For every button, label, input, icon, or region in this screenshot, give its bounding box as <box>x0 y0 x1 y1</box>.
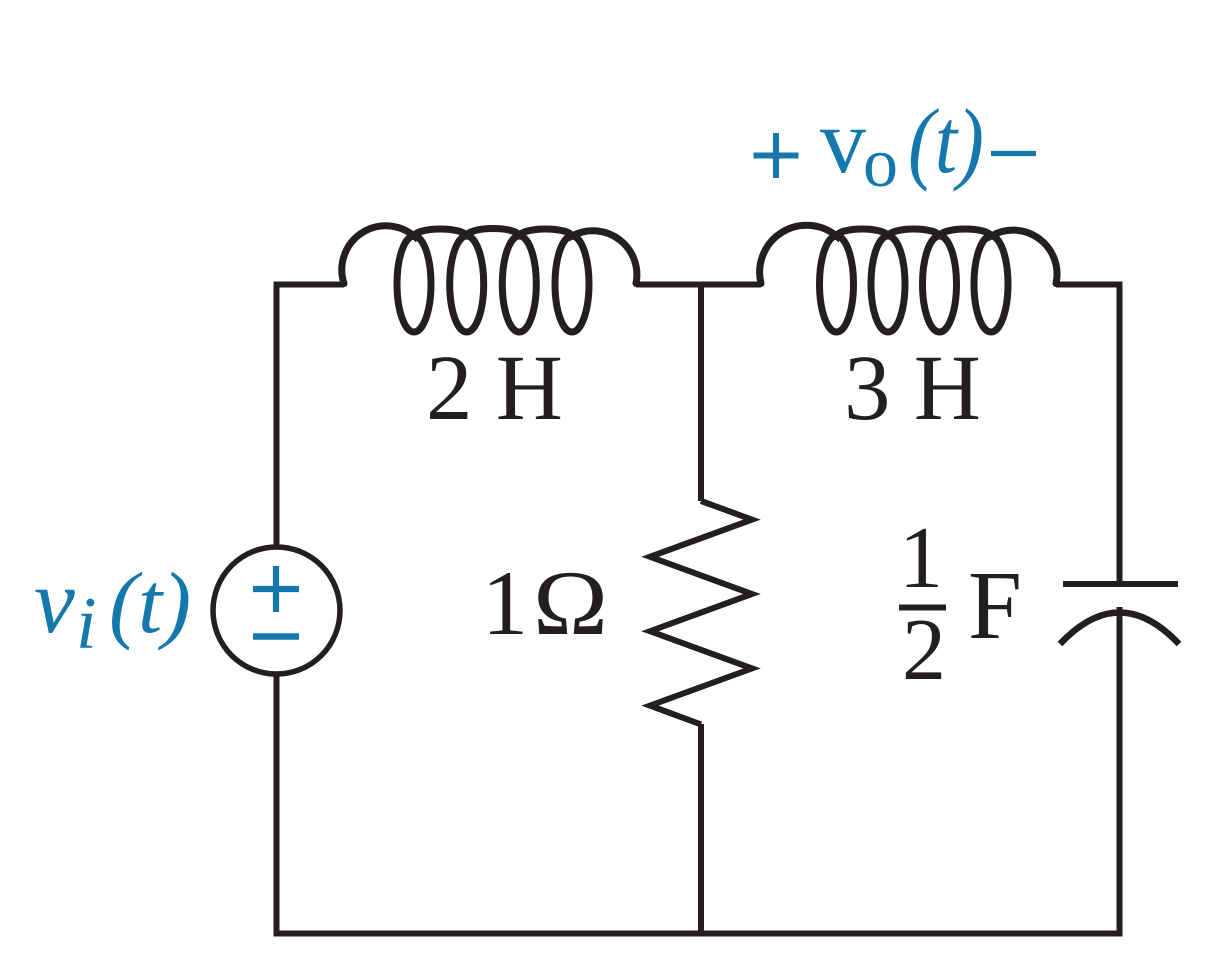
wire: top middle horizontal segment <box>636 282 761 288</box>
wire: bottom rail <box>274 931 1123 937</box>
capacitor C1 bottom curved plate <box>1060 613 1179 645</box>
svg-text:3 H: 3 H <box>844 337 981 440</box>
svg-text:2: 2 <box>902 602 946 699</box>
wire: left vertical from source down to bottom rail <box>274 674 280 937</box>
voltage source V1 circle <box>213 547 340 674</box>
svg-text:v: v <box>34 550 75 652</box>
label: 1/2 F capacitance value <box>899 510 1022 699</box>
svg-text:2 H: 2 H <box>426 337 563 440</box>
wire: right vertical from top rail to capacitor top plate <box>1117 282 1123 584</box>
plus sign inside source <box>253 566 299 612</box>
svg-text:Ω: Ω <box>533 552 608 654</box>
svg-text:F: F <box>968 552 1022 659</box>
wire: capacitor bottom to bottom rail <box>1117 607 1123 937</box>
wire: top-right horizontal segment <box>1056 282 1123 288</box>
capacitor C1 top plate <box>1063 581 1178 587</box>
label: vo(t) output voltage (blue) <box>820 90 984 202</box>
inductor L1 coil (2 H) <box>342 226 637 332</box>
resistor R1 zigzag (1 Ohm) <box>650 501 752 724</box>
svg-text:(t): (t) <box>908 90 984 192</box>
plus sign of vo label <box>754 133 799 178</box>
wire: left vertical from top rail down to source <box>274 282 280 547</box>
svg-text:i: i <box>76 583 97 665</box>
label: vi(t) source voltage (blue) <box>34 550 191 665</box>
svg-text:v: v <box>820 90 866 192</box>
svg-text:(t): (t) <box>109 554 191 651</box>
node: middle junction vertical wire down to resistor <box>698 282 704 501</box>
minus sign inside source <box>253 633 299 640</box>
inductor L2 coil (3 H) <box>760 225 1057 332</box>
svg-text:1: 1 <box>482 552 528 654</box>
svg-text:1: 1 <box>899 510 943 607</box>
svg-text:o: o <box>863 125 898 202</box>
wire: top-left horizontal segment <box>274 282 345 288</box>
wire: resistor bottom to bottom rail <box>698 724 704 937</box>
minus sign of vo label <box>991 151 1036 156</box>
